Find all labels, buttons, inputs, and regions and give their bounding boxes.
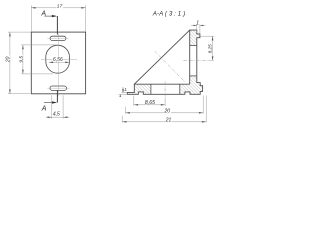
svg-text:9,5: 9,5 xyxy=(19,56,25,63)
center obround hole xyxy=(46,45,70,73)
cutting plane line bottom xyxy=(56,90,58,102)
section arrow A bottom xyxy=(41,101,58,112)
top slot xyxy=(50,36,66,40)
wall hole top edge xyxy=(190,44,197,46)
base slot left edge xyxy=(150,84,152,94)
svg-text:4,5: 4,5 xyxy=(53,111,60,117)
dimension 8,65 xyxy=(134,96,165,106)
wall hole bottom edge xyxy=(190,75,197,77)
svg-text:8,65: 8,65 xyxy=(145,100,155,106)
dimension 21 bottom xyxy=(122,96,206,124)
bottom slot horizontal centerline xyxy=(47,87,69,89)
dimension 20 bottom xyxy=(126,96,204,115)
base slot right edge xyxy=(179,84,181,94)
svg-text:6,56: 6,56 xyxy=(53,57,63,63)
svg-text:17: 17 xyxy=(57,4,63,10)
svg-text:1: 1 xyxy=(124,87,127,92)
hatch top block xyxy=(190,30,200,45)
svg-text:1: 1 xyxy=(196,21,199,27)
cutting plane line top xyxy=(56,16,58,34)
dimension 20 left xyxy=(6,32,31,94)
base top edge xyxy=(134,83,189,85)
dimension 1 top right xyxy=(191,21,205,34)
dimension 8,25 right xyxy=(201,36,215,61)
section outline xyxy=(127,30,202,94)
dimension 4,5 bottom xyxy=(46,95,70,118)
svg-text:20: 20 xyxy=(6,56,12,63)
diagonal hole axis centerline xyxy=(155,51,186,83)
bottom slot xyxy=(50,86,67,90)
svg-text:A-A ( 3 : 1 ): A-A ( 3 : 1 ) xyxy=(152,11,185,18)
hatch left base block xyxy=(127,84,151,94)
svg-text:21: 21 xyxy=(165,118,172,124)
vertical centerline xyxy=(57,34,59,97)
dimension 1 bottom left lip xyxy=(119,87,128,97)
svg-text:8,25: 8,25 xyxy=(208,44,213,53)
base slot centerline xyxy=(164,82,166,97)
svg-text:A: A xyxy=(40,11,46,18)
wall inner face edge xyxy=(189,30,191,84)
dimension 6,56 inside hole xyxy=(49,57,70,64)
dimension 17 top xyxy=(31,4,85,32)
front view plate outline xyxy=(31,32,85,94)
dimension 9,5 left inner xyxy=(19,45,57,74)
hatch right base and wall bottom xyxy=(180,76,203,94)
svg-text:A: A xyxy=(41,105,47,112)
svg-text:20: 20 xyxy=(164,109,171,115)
section arrow A top xyxy=(40,11,57,18)
top slot horizontal centerline xyxy=(47,37,68,39)
wall hole centerline xyxy=(183,60,214,62)
horizontal centerline of hole xyxy=(41,59,77,61)
